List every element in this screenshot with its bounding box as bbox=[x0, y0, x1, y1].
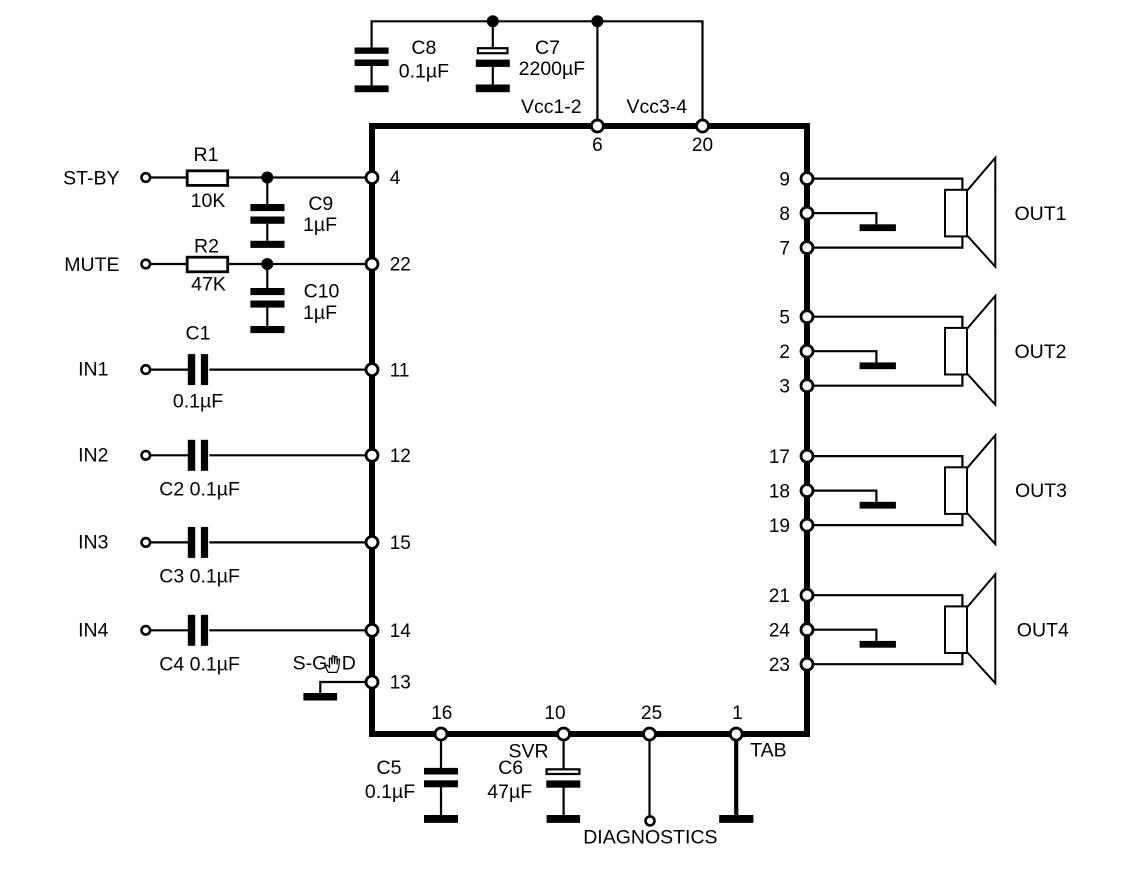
svg-text:IN1: IN1 bbox=[78, 359, 108, 381]
svg-text:OUT1: OUT1 bbox=[1014, 203, 1066, 225]
svg-text:2: 2 bbox=[779, 342, 790, 363]
svg-text:25: 25 bbox=[641, 703, 662, 724]
svg-text:16: 16 bbox=[431, 703, 452, 724]
svg-text:6: 6 bbox=[592, 135, 603, 156]
svg-text:MUTE: MUTE bbox=[64, 254, 119, 276]
svg-text:1: 1 bbox=[732, 703, 743, 724]
svg-text:IN3: IN3 bbox=[78, 531, 108, 553]
svg-text:ST-BY: ST-BY bbox=[63, 167, 119, 189]
svg-text:47µF: 47µF bbox=[487, 781, 532, 803]
svg-text:15: 15 bbox=[390, 533, 411, 554]
svg-text:D: D bbox=[342, 652, 356, 674]
svg-text:0.1µF: 0.1µF bbox=[365, 781, 415, 803]
svg-text:10: 10 bbox=[544, 703, 565, 724]
svg-text:2200µF: 2200µF bbox=[519, 58, 586, 80]
svg-text:8: 8 bbox=[779, 204, 790, 225]
svg-text:17: 17 bbox=[769, 447, 790, 468]
svg-text:C6: C6 bbox=[498, 757, 523, 779]
svg-text:R1: R1 bbox=[194, 144, 219, 166]
svg-text:TAB: TAB bbox=[750, 739, 786, 761]
svg-text:1µF: 1µF bbox=[303, 214, 337, 236]
svg-text:S-G: S-G bbox=[293, 652, 328, 674]
svg-text:C9: C9 bbox=[308, 193, 333, 215]
svg-text:IN4: IN4 bbox=[78, 619, 109, 641]
svg-text:3: 3 bbox=[779, 376, 790, 397]
svg-text:C7: C7 bbox=[535, 37, 560, 59]
svg-text:1µF: 1µF bbox=[303, 302, 337, 324]
svg-text:C4 0.1µF: C4 0.1µF bbox=[159, 654, 240, 676]
svg-text:OUT3: OUT3 bbox=[1015, 480, 1067, 502]
svg-text:47K: 47K bbox=[191, 274, 226, 296]
svg-text:C3 0.1µF: C3 0.1µF bbox=[159, 566, 240, 588]
svg-text:12: 12 bbox=[390, 446, 411, 467]
svg-text:22: 22 bbox=[390, 255, 411, 276]
svg-text:7: 7 bbox=[779, 238, 790, 259]
svg-text:23: 23 bbox=[769, 655, 790, 676]
svg-text:C5: C5 bbox=[377, 757, 402, 779]
svg-text:10K: 10K bbox=[191, 190, 226, 212]
svg-text:11: 11 bbox=[390, 360, 410, 381]
svg-text:21: 21 bbox=[769, 586, 790, 607]
svg-text:IN2: IN2 bbox=[78, 444, 108, 466]
svg-text:C10: C10 bbox=[304, 281, 340, 303]
svg-text:18: 18 bbox=[769, 481, 790, 502]
svg-text:13: 13 bbox=[390, 673, 411, 694]
svg-text:Vcc3-4: Vcc3-4 bbox=[626, 96, 687, 118]
svg-text:0.1µF: 0.1µF bbox=[173, 391, 223, 413]
svg-text:OUT4: OUT4 bbox=[1017, 620, 1069, 642]
svg-text:4: 4 bbox=[390, 168, 401, 189]
svg-text:R2: R2 bbox=[194, 235, 219, 257]
svg-text:C8: C8 bbox=[411, 37, 436, 59]
svg-text:14: 14 bbox=[390, 621, 412, 642]
svg-text:OUT2: OUT2 bbox=[1014, 341, 1066, 363]
svg-text:9: 9 bbox=[779, 169, 790, 190]
svg-text:24: 24 bbox=[769, 620, 791, 641]
svg-text:DIAGNOSTICS: DIAGNOSTICS bbox=[583, 827, 717, 849]
svg-text:0.1µF: 0.1µF bbox=[399, 60, 449, 82]
svg-text:20: 20 bbox=[692, 135, 713, 156]
svg-text:5: 5 bbox=[779, 307, 790, 328]
svg-text:C1: C1 bbox=[186, 322, 211, 344]
svg-text:C2 0.1µF: C2 0.1µF bbox=[159, 479, 240, 501]
svg-text:Vcc1-2: Vcc1-2 bbox=[521, 96, 582, 118]
svg-text:19: 19 bbox=[769, 516, 790, 537]
